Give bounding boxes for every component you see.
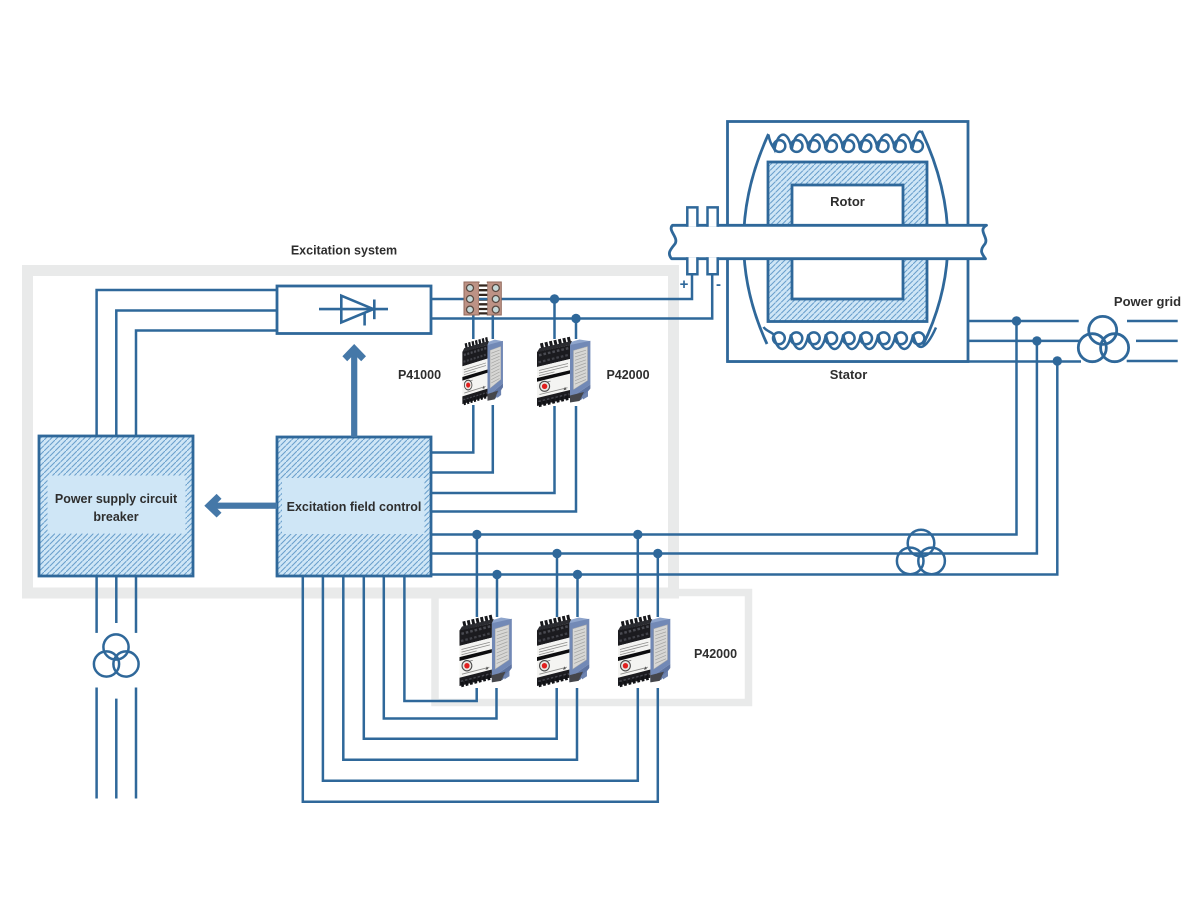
svg-text:Power grid: Power grid xyxy=(1114,294,1181,309)
relay group enclosure (gray frame) xyxy=(435,593,749,703)
wire: DC+ bus to P42000 left xyxy=(553,299,556,339)
svg-text:Power supply circuit: Power supply circuit xyxy=(55,492,178,506)
wire: P41000 right to field control xyxy=(431,405,493,473)
svg-text:Stator: Stator xyxy=(830,367,868,382)
wire: breaker to rectifier input 1 xyxy=(97,290,277,436)
wire: supply transformer secondary 3 xyxy=(135,688,138,799)
measuring transformer (middle) xyxy=(897,530,945,574)
supply transformer (bottom left) xyxy=(94,634,139,676)
wire: field control loop 2 to relay3 left xyxy=(323,576,638,781)
wire: bus B tap to relay3 right xyxy=(657,554,660,618)
relay group unit 1 xyxy=(459,617,511,686)
node: stator phase 1 tap xyxy=(1012,316,1021,325)
wire: field control loop 3 to relay2 right xyxy=(343,576,577,760)
grid transformer xyxy=(1078,316,1128,361)
wire: bus C tap to relay1 right xyxy=(496,575,499,618)
wire: field control loop 6 to relay1 left xyxy=(404,576,476,701)
thyristor symbol xyxy=(319,296,388,326)
node: bus B relay2 tap xyxy=(552,549,561,558)
wire: field control loop 4 to relay2 left xyxy=(364,576,557,739)
wire: measuring bus B xyxy=(431,341,1037,554)
node: DC+ tap xyxy=(550,294,559,303)
relay P42000 (excitation monitor) xyxy=(537,339,590,406)
stator end-winding left arc xyxy=(744,134,769,344)
wire: supply transformer secondary 1 xyxy=(95,688,98,799)
wire: breaker to rectifier input 3 xyxy=(136,331,277,437)
wire: bus A tap to relay3 left xyxy=(637,535,640,618)
wire: breaker down to supply transformer phase 2 xyxy=(115,576,118,623)
node: stator phase 3 tap xyxy=(1053,356,1062,365)
slip ring brushes (top pair) xyxy=(687,207,717,226)
node: bus A relay3 tap xyxy=(633,530,642,539)
wire: grid transformer output 3 xyxy=(1127,360,1178,363)
wire: rectifier DC+ to rotor slip ring xyxy=(431,274,692,299)
wire: bus B tap to relay2 left xyxy=(556,554,559,618)
stator end-winding right arc xyxy=(922,131,948,345)
stator frame xyxy=(728,122,969,362)
wire: field control loop 1 to relay3 right xyxy=(303,576,658,802)
node: stator phase 2 tap xyxy=(1032,336,1041,345)
stator winding (top coil) xyxy=(769,131,923,151)
power supply circuit breaker box xyxy=(39,436,193,576)
wire: field control loop 5 to relay1 right xyxy=(384,576,497,719)
node: bus C relay1 tap xyxy=(492,570,501,579)
wire: shunt to P41000 right xyxy=(492,313,495,339)
svg-text:breaker: breaker xyxy=(93,510,138,524)
wire: P42000 right to field control xyxy=(431,406,576,512)
node: bus C relay2 tap xyxy=(573,570,582,579)
svg-text:Rotor: Rotor xyxy=(830,194,865,209)
stator winding (bottom coil) xyxy=(764,327,937,349)
shaft xyxy=(669,225,986,258)
wire: P42000 left to field control xyxy=(431,406,555,493)
wire: bus C tap to relay2 right xyxy=(576,575,579,618)
wire: P41000 left to field control xyxy=(431,405,473,453)
relay P41000 xyxy=(462,339,503,404)
wire: stator phase 2 to grid transformer xyxy=(967,340,1080,343)
wire: measuring bus C xyxy=(431,361,1057,575)
relay group unit 2 xyxy=(537,617,589,686)
slip ring brushes (bottom pair) xyxy=(687,257,717,274)
wire: bus A tap to relay1 left xyxy=(476,535,479,618)
wire: stator phase 3 to grid transformer xyxy=(727,360,1081,363)
wire: breaker to rectifier input 2 xyxy=(116,311,277,437)
rotor window xyxy=(792,185,903,299)
node: bus A relay1 tap xyxy=(472,530,481,539)
svg-text:Excitation field control: Excitation field control xyxy=(287,500,422,514)
wire: breaker down to supply transformer phase 3 xyxy=(135,576,138,633)
arrow: field control to breaker xyxy=(204,494,277,518)
wire: DC- bus to P42000 right xyxy=(575,319,578,340)
wire: supply transformer secondary 2 xyxy=(115,699,118,799)
arrow: field control to rectifier xyxy=(342,344,366,437)
wire: breaker down to supply transformer phase 1 xyxy=(95,576,98,633)
relay group unit 3 xyxy=(618,617,670,686)
wire: shunt to P41000 left xyxy=(472,313,475,339)
node: DC- tap xyxy=(571,314,580,323)
svg-text:P42000: P42000 xyxy=(694,647,737,661)
shunt terminal block xyxy=(464,282,501,315)
wire: grid transformer output 2 xyxy=(1136,340,1178,343)
svg-text:Excitation system: Excitation system xyxy=(291,244,397,258)
wire: stator phase 1 to grid transformer xyxy=(967,320,1079,323)
node: bus B relay3 tap xyxy=(653,549,662,558)
wire: grid transformer output 1 xyxy=(1127,320,1178,323)
rotor core (hatched) xyxy=(768,162,927,322)
svg-text:P42000: P42000 xyxy=(606,368,649,382)
svg-text:+: + xyxy=(680,276,689,293)
wire: rectifier DC- to rotor slip ring xyxy=(431,274,712,318)
svg-text:-: - xyxy=(716,276,721,293)
excitation field control box xyxy=(277,437,431,576)
svg-text:P41000: P41000 xyxy=(398,368,441,382)
excitation system enclosure (gray frame) xyxy=(28,271,674,594)
rectifier box xyxy=(277,286,431,334)
wire: measuring bus A xyxy=(431,321,1017,535)
